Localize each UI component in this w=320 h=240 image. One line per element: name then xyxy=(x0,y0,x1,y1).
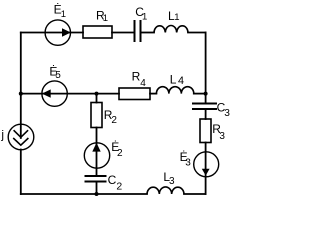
resistor R2 xyxy=(91,103,102,128)
wire R3 through E3 to bottom xyxy=(205,143,207,195)
resistor R3 xyxy=(200,119,211,143)
svg-text:j: j xyxy=(0,128,4,142)
resistor R1 xyxy=(83,26,112,38)
wire C1 to L1 xyxy=(141,32,155,34)
capacitor C2 xyxy=(85,176,107,182)
node row2 middle xyxy=(95,92,99,96)
label L4 xyxy=(170,73,184,87)
svg-text:5: 5 xyxy=(55,70,61,81)
svg-text:2: 2 xyxy=(111,115,117,126)
inductor L3 xyxy=(147,187,184,194)
inductor L1 xyxy=(154,26,188,33)
label E1 xyxy=(54,3,66,20)
source E3 xyxy=(194,152,219,177)
wire left vertical bottom xyxy=(20,150,22,195)
source E5 xyxy=(42,81,67,106)
svg-text:2: 2 xyxy=(117,148,123,159)
wire bottom left to L3 xyxy=(21,193,147,195)
label C3 xyxy=(217,101,231,119)
node row2 right xyxy=(204,92,208,96)
svg-text:2: 2 xyxy=(116,181,122,193)
svg-text:3: 3 xyxy=(224,108,230,119)
label E3 xyxy=(180,150,192,169)
node bottom middle xyxy=(95,192,99,196)
capacitor C3 xyxy=(192,104,217,110)
current source j xyxy=(8,124,34,150)
label R4 xyxy=(132,69,147,89)
source E1 xyxy=(45,20,71,45)
wire R4 to L4 xyxy=(150,93,156,95)
label C2 xyxy=(108,173,123,193)
label C1 xyxy=(135,5,147,22)
resistor R4 xyxy=(119,88,150,100)
wire left vertical top xyxy=(20,33,22,139)
node row2 left xyxy=(19,92,23,96)
label E5 xyxy=(49,64,61,81)
wire node to R2 xyxy=(96,94,98,103)
svg-text:4: 4 xyxy=(140,78,146,89)
wire top row through E1 xyxy=(21,32,83,34)
wire C2 to bottom xyxy=(96,182,98,195)
svg-text:1: 1 xyxy=(61,9,66,20)
label L3 xyxy=(163,170,175,187)
wire C3 to R3 xyxy=(205,109,207,119)
svg-text:3: 3 xyxy=(185,158,191,169)
svg-text:3: 3 xyxy=(219,131,225,142)
svg-text:1: 1 xyxy=(103,13,108,24)
svg-text:4: 4 xyxy=(178,75,184,87)
wire R2 through E2 to C2 xyxy=(96,128,98,177)
svg-text:1: 1 xyxy=(142,11,147,22)
source E2 xyxy=(84,143,109,168)
label E2 xyxy=(111,140,123,159)
inductor L4 xyxy=(156,87,193,94)
svg-text:1: 1 xyxy=(174,12,179,23)
label R1 xyxy=(96,9,108,24)
wire L4 to right vertical xyxy=(194,93,206,95)
wire L3 to bottom right corner xyxy=(184,193,206,195)
svg-text:3: 3 xyxy=(169,176,175,187)
label L1 xyxy=(168,9,179,23)
wire L1 to right corner xyxy=(188,32,206,34)
wire right vertical to C3 xyxy=(205,33,207,104)
svg-text:C: C xyxy=(108,173,117,187)
wire R1 to C1 xyxy=(112,32,134,34)
capacitor C1 xyxy=(135,20,141,42)
svg-text:R: R xyxy=(132,69,141,83)
label R3 xyxy=(212,122,225,142)
svg-text:L: L xyxy=(170,73,177,87)
wire row2 through E5 to R4 xyxy=(21,93,119,95)
label R2 xyxy=(104,108,118,126)
